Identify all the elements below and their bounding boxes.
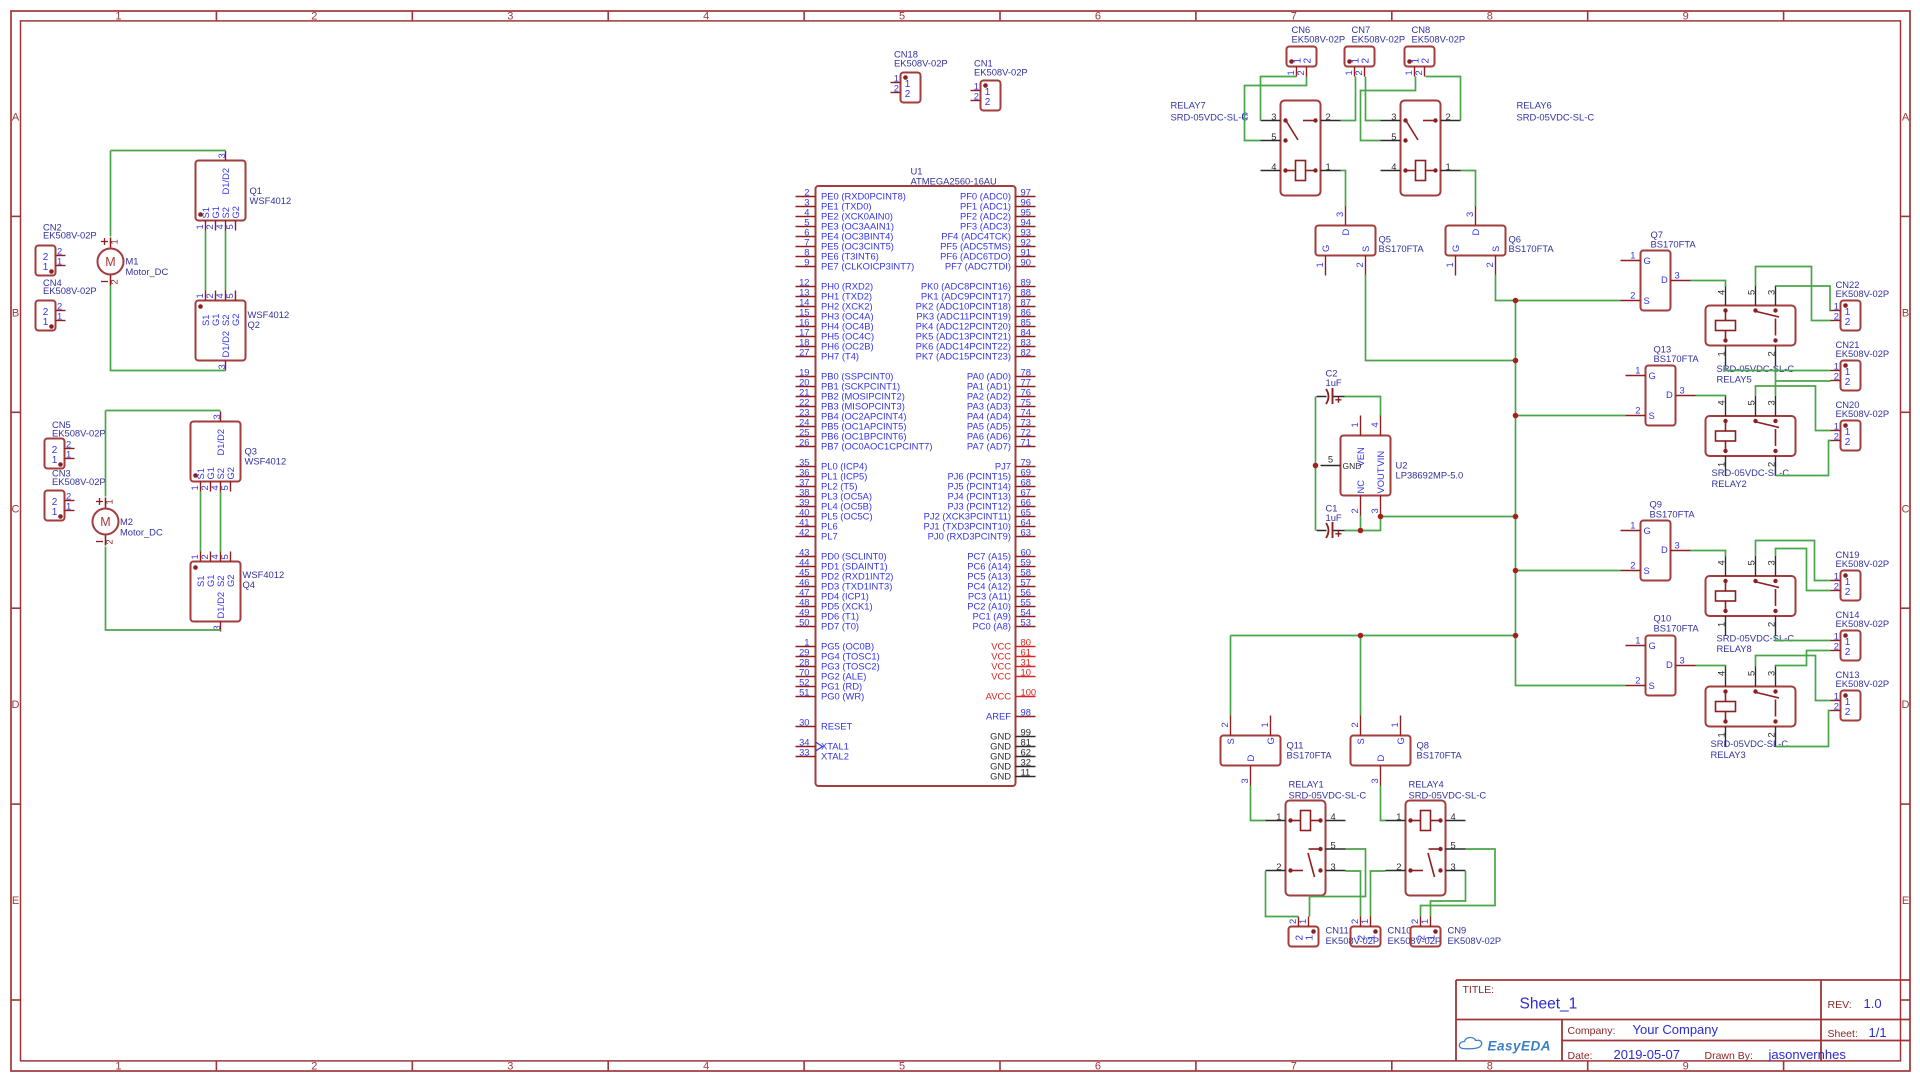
svg-text:3: 3 [1765, 560, 1776, 565]
svg-text:3: 3 [507, 1061, 513, 1073]
svg-text:2: 2 [1765, 351, 1776, 356]
svg-text:1: 1 [1396, 811, 1401, 822]
svg-text:1: 1 [1715, 732, 1726, 737]
svg-text:63: 63 [1021, 527, 1031, 538]
svg-text:2: 2 [311, 11, 317, 23]
svg-text:1: 1 [1259, 722, 1270, 727]
svg-text:1: 1 [1367, 935, 1378, 941]
svg-text:SRD-05VDC-SL-C: SRD-05VDC-SL-C [1289, 790, 1367, 801]
svg-text:1: 1 [1305, 935, 1316, 941]
svg-text:Company:: Company: [1568, 1025, 1616, 1037]
svg-text:3: 3 [216, 364, 227, 369]
svg-text:3: 3 [216, 153, 227, 158]
svg-text:3: 3 [507, 11, 513, 23]
svg-text:7: 7 [1291, 11, 1297, 23]
svg-text:3: 3 [1239, 778, 1250, 783]
svg-text:5: 5 [219, 554, 230, 559]
svg-text:XTAL2: XTAL2 [821, 751, 849, 762]
svg-text:42: 42 [799, 527, 809, 538]
svg-text:BS170FTA: BS170FTA [1287, 750, 1333, 761]
svg-text:2: 2 [974, 91, 979, 102]
svg-text:M: M [105, 255, 115, 269]
svg-text:2: 2 [905, 89, 911, 100]
svg-text:GND: GND [1343, 461, 1362, 471]
svg-text:2: 2 [1765, 732, 1776, 737]
svg-text:SRD-05VDC-SL-C: SRD-05VDC-SL-C [1517, 112, 1595, 123]
svg-text:S: S [1355, 738, 1366, 744]
svg-text:2: 2 [1361, 58, 1372, 64]
svg-text:WSF4012: WSF4012 [245, 456, 287, 467]
svg-text:1: 1 [1715, 351, 1726, 356]
svg-text:2: 2 [1834, 311, 1839, 322]
svg-text:4: 4 [1715, 671, 1726, 676]
svg-text:PA7 (AD7): PA7 (AD7) [967, 441, 1011, 452]
svg-text:G: G [1450, 245, 1461, 252]
svg-text:GND: GND [990, 771, 1011, 782]
svg-text:5: 5 [1328, 454, 1333, 465]
svg-text:4: 4 [1715, 560, 1726, 565]
svg-text:Q4: Q4 [243, 579, 256, 590]
svg-text:2: 2 [1834, 371, 1839, 382]
svg-text:2: 2 [1834, 701, 1839, 712]
svg-text:5: 5 [219, 485, 230, 490]
svg-text:EK508V-02P: EK508V-02P [1352, 34, 1406, 45]
svg-text:PK7 (ADC15PCINT23): PK7 (ADC15PCINT23) [916, 351, 1011, 362]
svg-text:3: 3 [1369, 778, 1380, 783]
svg-text:1: 1 [1389, 722, 1400, 727]
svg-text:S: S [1644, 295, 1650, 306]
svg-text:RELAY6: RELAY6 [1517, 100, 1552, 111]
svg-text:EK508V-02P: EK508V-02P [894, 58, 948, 69]
svg-text:RELAY2: RELAY2 [1712, 478, 1747, 489]
svg-text:71: 71 [1021, 437, 1031, 448]
svg-text:2: 2 [1219, 722, 1230, 727]
svg-text:4: 4 [1331, 811, 1336, 822]
svg-text:D1/D2: D1/D2 [220, 331, 231, 358]
svg-text:VOUT: VOUT [1375, 467, 1386, 493]
svg-text:REV:: REV: [1828, 999, 1852, 1011]
svg-text:2: 2 [1421, 58, 1432, 64]
svg-text:CN10: CN10 [1388, 925, 1412, 936]
svg-text:PC0 (A8): PC0 (A8) [972, 621, 1011, 632]
svg-text:1: 1 [115, 1061, 121, 1073]
svg-text:1: 1 [1326, 161, 1331, 172]
svg-text:1: 1 [1715, 622, 1726, 627]
svg-text:3: 3 [1680, 385, 1685, 396]
svg-text:BS170FTA: BS170FTA [1654, 353, 1700, 364]
svg-text:2: 2 [1845, 317, 1851, 328]
svg-text:G: G [1320, 245, 1331, 252]
svg-text:1: 1 [57, 311, 62, 322]
svg-text:Motor_DC: Motor_DC [126, 266, 169, 277]
svg-text:BS170FTA: BS170FTA [1651, 239, 1697, 250]
svg-text:5: 5 [1271, 131, 1276, 142]
svg-text:1uF: 1uF [1326, 377, 1342, 388]
svg-text:2: 2 [1353, 70, 1364, 75]
svg-text:G2: G2 [230, 313, 241, 326]
svg-text:1: 1 [1276, 811, 1281, 822]
svg-text:6: 6 [1095, 11, 1101, 23]
svg-text:CN11: CN11 [1326, 925, 1349, 936]
svg-text:A: A [1902, 111, 1910, 123]
svg-text:7: 7 [1291, 1061, 1297, 1073]
svg-text:LP38692MP-5.0: LP38692MP-5.0 [1396, 470, 1464, 481]
svg-text:5: 5 [1331, 840, 1336, 851]
svg-text:1: 1 [52, 507, 58, 518]
svg-text:D: D [1470, 229, 1481, 236]
svg-text:BS170FTA: BS170FTA [1650, 509, 1696, 520]
svg-text:2: 2 [109, 279, 120, 284]
svg-text:2: 2 [1349, 508, 1360, 513]
svg-text:CN9: CN9 [1448, 925, 1467, 936]
svg-text:50: 50 [799, 617, 809, 628]
svg-text:D: D [1902, 699, 1910, 711]
svg-text:3: 3 [1331, 861, 1336, 872]
svg-text:A: A [12, 111, 20, 123]
svg-text:4: 4 [703, 1061, 709, 1073]
svg-text:4: 4 [1391, 161, 1396, 172]
svg-text:5: 5 [899, 1061, 905, 1073]
svg-text:2: 2 [1845, 377, 1851, 388]
svg-text:EK508V-02P: EK508V-02P [1836, 618, 1890, 629]
svg-text:2: 2 [311, 1061, 317, 1073]
svg-text:11: 11 [1021, 767, 1031, 778]
svg-text:4: 4 [1369, 422, 1380, 427]
svg-text:2: 2 [1484, 262, 1495, 267]
svg-text:27: 27 [799, 347, 809, 358]
svg-text:D: D [1661, 274, 1668, 285]
svg-text:EK508V-02P: EK508V-02P [43, 285, 97, 296]
svg-text:1: 1 [1630, 520, 1635, 531]
svg-text:2: 2 [1413, 70, 1424, 75]
svg-text:PG0 (WR): PG0 (WR) [821, 691, 864, 702]
svg-text:2: 2 [104, 539, 115, 544]
svg-text:30: 30 [799, 717, 809, 728]
svg-text:10: 10 [1021, 667, 1031, 678]
svg-text:2: 2 [1845, 437, 1851, 448]
svg-text:D1/D2: D1/D2 [220, 168, 231, 195]
svg-text:1: 1 [57, 256, 62, 267]
svg-text:3: 3 [1765, 290, 1776, 295]
svg-text:G: G [1644, 255, 1651, 266]
svg-text:2: 2 [1630, 560, 1635, 571]
svg-text:SRD-05VDC-SL-C: SRD-05VDC-SL-C [1409, 790, 1487, 801]
svg-text:G: G [1644, 525, 1651, 536]
svg-text:TITLE:: TITLE: [1463, 984, 1495, 996]
svg-text:2: 2 [1396, 861, 1401, 872]
svg-text:2: 2 [1276, 861, 1281, 872]
svg-text:RELAY5: RELAY5 [1717, 374, 1752, 385]
svg-text:NC: NC [1355, 480, 1366, 494]
svg-text:1: 1 [1349, 422, 1360, 427]
svg-text:3: 3 [1391, 111, 1396, 122]
svg-text:G2: G2 [225, 574, 236, 587]
svg-text:33: 33 [799, 747, 809, 758]
svg-text:M: M [100, 515, 110, 529]
svg-text:BS170FTA: BS170FTA [1417, 750, 1463, 761]
svg-text:E: E [12, 895, 19, 907]
svg-text:3: 3 [1680, 655, 1685, 666]
svg-text:2: 2 [985, 97, 991, 108]
svg-text:5: 5 [1745, 400, 1756, 405]
svg-text:Date:: Date: [1568, 1050, 1593, 1062]
svg-text:2: 2 [1834, 581, 1839, 592]
svg-text:90: 90 [1021, 257, 1031, 268]
svg-text:51: 51 [799, 687, 809, 698]
svg-text:3: 3 [1451, 861, 1456, 872]
svg-text:8: 8 [1487, 11, 1493, 23]
svg-text:2: 2 [1765, 622, 1776, 627]
svg-text:3: 3 [1765, 400, 1776, 405]
svg-text:5: 5 [1745, 671, 1756, 676]
svg-text:1: 1 [104, 499, 115, 504]
svg-text:1: 1 [115, 11, 121, 23]
svg-text:3: 3 [1675, 270, 1680, 281]
svg-text:4: 4 [1715, 400, 1726, 405]
svg-text:3: 3 [1765, 671, 1776, 676]
svg-text:4: 4 [1715, 290, 1726, 295]
svg-text:5: 5 [1391, 131, 1396, 142]
svg-text:1.0: 1.0 [1864, 996, 1882, 1011]
svg-text:EK508V-02P: EK508V-02P [1836, 288, 1890, 299]
svg-text:Your Company: Your Company [1633, 1022, 1719, 1037]
svg-text:D: D [1666, 659, 1673, 670]
svg-text:2: 2 [1446, 111, 1451, 122]
svg-text:RELAY4: RELAY4 [1409, 779, 1444, 790]
svg-text:2: 2 [1303, 58, 1314, 64]
svg-text:D1/D2: D1/D2 [215, 592, 226, 619]
svg-text:2: 2 [1834, 431, 1839, 442]
svg-text:PD7 (T0): PD7 (T0) [821, 621, 859, 632]
svg-text:Sheet:: Sheet: [1828, 1028, 1858, 1040]
svg-text:EK508V-02P: EK508V-02P [1836, 558, 1890, 569]
svg-text:EK508V-02P: EK508V-02P [52, 476, 106, 487]
svg-text:SRD-05VDC-SL-C: SRD-05VDC-SL-C [1171, 112, 1249, 123]
svg-text:4: 4 [1451, 811, 1456, 822]
svg-text:RELAY3: RELAY3 [1711, 749, 1746, 760]
svg-text:1: 1 [66, 449, 71, 460]
svg-text:2: 2 [1295, 70, 1306, 75]
svg-text:5: 5 [899, 11, 905, 23]
svg-text:2: 2 [1635, 405, 1640, 416]
svg-text:D: D [1661, 544, 1668, 555]
svg-text:1: 1 [1359, 919, 1370, 924]
svg-text:EasyEDA: EasyEDA [1488, 1039, 1552, 1054]
svg-text:G2: G2 [225, 467, 236, 480]
svg-text:2019-05-07: 2019-05-07 [1614, 1047, 1681, 1062]
svg-text:G: G [1649, 640, 1656, 651]
svg-text:2: 2 [1349, 722, 1360, 727]
svg-text:D: D [1666, 389, 1673, 400]
svg-text:3: 3 [1334, 212, 1345, 217]
svg-text:SRD-05VDC-SL-C: SRD-05VDC-SL-C [1717, 633, 1795, 644]
svg-text:1: 1 [66, 501, 71, 512]
svg-text:B: B [12, 307, 19, 319]
svg-text:1: 1 [1635, 635, 1640, 646]
svg-text:26: 26 [799, 437, 809, 448]
svg-text:Motor_DC: Motor_DC [120, 527, 163, 538]
svg-text:RELAY1: RELAY1 [1289, 779, 1324, 790]
svg-text:EK508V-02P: EK508V-02P [1836, 408, 1890, 419]
svg-text:Sheet_1: Sheet_1 [1520, 996, 1578, 1013]
svg-text:Drawn By:: Drawn By: [1705, 1050, 1753, 1062]
svg-text:PF7 (ADC7TDI): PF7 (ADC7TDI) [945, 261, 1011, 272]
svg-text:C: C [1902, 503, 1910, 515]
svg-text:3: 3 [211, 414, 222, 419]
svg-text:4: 4 [703, 11, 709, 23]
svg-text:M1: M1 [126, 256, 139, 267]
svg-text:RESET: RESET [821, 721, 853, 732]
svg-text:WSF4012: WSF4012 [250, 195, 292, 206]
svg-text:1: 1 [1419, 919, 1430, 924]
svg-text:C: C [12, 503, 20, 515]
svg-text:2: 2 [1845, 707, 1851, 718]
svg-text:PE7 (CLKOICP3INT7): PE7 (CLKOICP3INT7) [821, 261, 914, 272]
svg-text:EK508V-02P: EK508V-02P [43, 230, 97, 241]
svg-text:PB7 (OC0AOC1CPCINT7): PB7 (OC0AOC1CPCINT7) [821, 441, 932, 452]
svg-text:AVCC: AVCC [986, 691, 1012, 702]
svg-text:1/1: 1/1 [1869, 1025, 1887, 1040]
svg-text:RELAY7: RELAY7 [1171, 100, 1206, 111]
svg-text:1: 1 [52, 455, 58, 466]
svg-text:EK508V-02P: EK508V-02P [1836, 348, 1890, 359]
svg-text:S: S [1644, 565, 1650, 576]
svg-text:2: 2 [1845, 647, 1851, 658]
svg-text:EK508V-02P: EK508V-02P [974, 67, 1028, 78]
svg-text:9: 9 [804, 257, 809, 268]
svg-text:jasonvernhes: jasonvernhes [1768, 1047, 1847, 1062]
svg-text:S: S [1649, 410, 1655, 421]
svg-text:G: G [1265, 737, 1276, 744]
svg-text:E: E [1902, 895, 1909, 907]
svg-text:1: 1 [1630, 250, 1635, 261]
svg-text:5: 5 [1745, 560, 1756, 565]
svg-text:VCC: VCC [991, 671, 1011, 682]
svg-text:1: 1 [1314, 262, 1325, 267]
svg-text:3: 3 [1675, 540, 1680, 551]
svg-text:S: S [1490, 246, 1501, 252]
svg-text:2: 2 [894, 83, 899, 94]
svg-text:G: G [1395, 737, 1406, 744]
svg-text:9: 9 [1683, 11, 1689, 23]
svg-text:D1/D2: D1/D2 [215, 429, 226, 456]
svg-text:S: S [1360, 246, 1371, 252]
svg-text:BS170FTA: BS170FTA [1379, 243, 1425, 254]
svg-text:1: 1 [1427, 935, 1438, 941]
svg-text:2: 2 [1354, 262, 1365, 267]
svg-text:EK508V-02P: EK508V-02P [52, 428, 106, 439]
svg-text:3: 3 [1271, 111, 1276, 122]
svg-text:5: 5 [224, 293, 235, 298]
svg-text:D: D [1245, 755, 1256, 762]
svg-text:BS170FTA: BS170FTA [1509, 243, 1555, 254]
svg-text:2: 2 [1326, 111, 1331, 122]
svg-text:3: 3 [1464, 212, 1475, 217]
svg-text:2: 2 [1834, 641, 1839, 652]
svg-text:D: D [1375, 755, 1386, 762]
svg-text:53: 53 [1021, 617, 1031, 628]
svg-text:EK508V-02P: EK508V-02P [1836, 678, 1890, 689]
svg-text:1: 1 [1297, 919, 1308, 924]
svg-text:Q2: Q2 [248, 319, 261, 330]
svg-text:5: 5 [224, 224, 235, 229]
svg-text:B: B [1902, 307, 1909, 319]
svg-text:M2: M2 [120, 516, 133, 527]
svg-text:1: 1 [109, 239, 120, 244]
svg-text:1: 1 [1635, 365, 1640, 376]
svg-text:RELAY8: RELAY8 [1717, 643, 1752, 654]
svg-text:5: 5 [1745, 290, 1756, 295]
svg-text:AREF: AREF [986, 711, 1011, 722]
svg-text:1: 1 [1446, 161, 1451, 172]
svg-text:G: G [1649, 370, 1656, 381]
svg-text:S: S [1225, 738, 1236, 744]
svg-text:D: D [12, 699, 20, 711]
svg-text:S: S [1649, 680, 1655, 691]
svg-text:1: 1 [43, 317, 49, 328]
svg-text:100: 100 [1021, 687, 1037, 698]
svg-text:EK508V-02P: EK508V-02P [1448, 935, 1502, 946]
svg-text:EK508V-02P: EK508V-02P [1292, 34, 1346, 45]
svg-text:2: 2 [1845, 587, 1851, 598]
svg-text:98: 98 [1021, 707, 1031, 718]
svg-text:ATMEGA2560-16AU: ATMEGA2560-16AU [911, 176, 998, 187]
svg-text:5: 5 [1451, 840, 1456, 851]
svg-text:SRD-05VDC-SL-C: SRD-05VDC-SL-C [1717, 363, 1795, 374]
svg-text:3: 3 [1369, 508, 1380, 513]
svg-text:2: 2 [1635, 675, 1640, 686]
svg-text:6: 6 [1095, 1061, 1101, 1073]
svg-text:4: 4 [1271, 161, 1276, 172]
svg-text:PH7 (T4): PH7 (T4) [821, 351, 859, 362]
svg-text:D: D [1340, 229, 1351, 236]
svg-text:VIN: VIN [1375, 451, 1386, 467]
svg-text:PJ0 (RXD3PCINT9): PJ0 (RXD3PCINT9) [928, 531, 1011, 542]
svg-text:EK508V-02P: EK508V-02P [1412, 34, 1466, 45]
svg-text:2: 2 [1630, 290, 1635, 301]
svg-text:PL7: PL7 [821, 531, 838, 542]
svg-text:9: 9 [1683, 1061, 1689, 1073]
svg-text:BS170FTA: BS170FTA [1654, 623, 1700, 634]
svg-text:1: 1 [43, 262, 49, 273]
svg-text:1: 1 [1444, 262, 1455, 267]
svg-text:82: 82 [1021, 347, 1031, 358]
svg-text:G2: G2 [230, 206, 241, 219]
svg-text:1uF: 1uF [1326, 512, 1342, 523]
svg-text:8: 8 [1487, 1061, 1493, 1073]
